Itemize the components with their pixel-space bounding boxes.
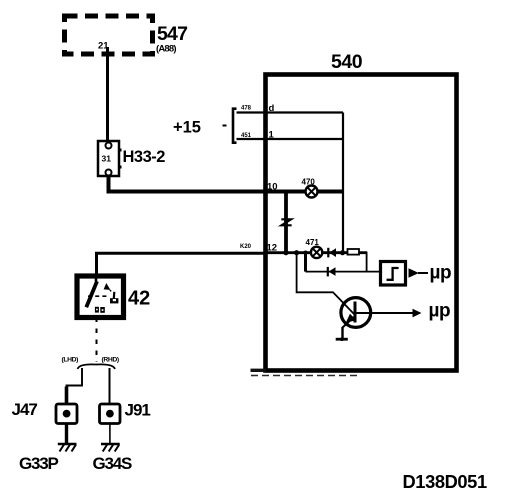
wire H33-2 to pin 10 of 540 xyxy=(109,176,344,192)
wire +15 d xyxy=(237,111,344,113)
diode D1 xyxy=(328,248,336,258)
box 540 xyxy=(266,75,457,371)
resistor R xyxy=(348,249,360,255)
wire zener branch xyxy=(284,192,288,253)
brace split xyxy=(78,364,116,369)
svg-text:12: 12 xyxy=(267,243,278,254)
svg-text:470: 470 xyxy=(302,178,316,187)
trigger box xyxy=(381,262,406,286)
svg-text:540: 540 xyxy=(331,51,363,73)
zener symbol xyxy=(281,219,291,225)
ground G33P xyxy=(58,444,77,452)
svg-text:(RHD): (RHD) xyxy=(102,357,119,364)
wire +15 1 xyxy=(237,138,344,140)
arrow to microprocessor 2 xyxy=(370,309,421,318)
svg-text:42: 42 xyxy=(128,288,150,310)
svg-text:1: 1 xyxy=(269,130,275,141)
ground G34S xyxy=(101,444,120,452)
junction dot xyxy=(283,250,288,255)
svg-text:(LHD): (LHD) xyxy=(62,357,79,364)
junction dot xyxy=(294,250,299,255)
wire vertical feed xyxy=(342,113,344,253)
scan noise under box bottom xyxy=(251,375,358,377)
diode D2 xyxy=(328,267,336,277)
svg-text:G33P: G33P xyxy=(19,454,59,473)
svg-text:10: 10 xyxy=(267,182,278,193)
svg-text:µp: µp xyxy=(429,301,451,322)
scan corner tick xyxy=(251,369,267,372)
lamp 470 xyxy=(306,186,318,198)
transistor Q xyxy=(341,298,371,339)
svg-text:+15: +15 xyxy=(173,119,201,137)
arrow to microprocessor 1 xyxy=(409,268,429,277)
connector J47 xyxy=(56,404,77,424)
connector 547 dashed box xyxy=(65,16,153,54)
dash after +15 xyxy=(223,125,227,127)
wire pin 12 branch xyxy=(265,251,367,254)
wire J47 to ground xyxy=(65,424,68,444)
wire left branch xyxy=(67,368,83,404)
svg-text:D138D051: D138D051 xyxy=(403,471,487,492)
svg-text:471: 471 xyxy=(306,238,320,247)
wire right branch xyxy=(109,368,111,405)
wire resistor to corner xyxy=(359,253,367,272)
wire switch 42 to pin 12 xyxy=(97,253,266,276)
svg-text:478: 478 xyxy=(241,106,252,112)
connector J91 xyxy=(100,404,121,424)
svg-text:J91: J91 xyxy=(125,401,151,420)
wire 547 to H33-2 xyxy=(106,47,109,142)
switch 42 box xyxy=(77,276,124,318)
dashed wire below 42 xyxy=(96,318,98,363)
wire J91 to ground xyxy=(109,424,111,444)
junction dot xyxy=(340,250,345,255)
svg-text:(A88): (A88) xyxy=(156,44,176,55)
connector H33-2 xyxy=(98,141,122,176)
svg-text:H33-2: H33-2 xyxy=(123,148,166,166)
bracket for +15 wires xyxy=(233,109,237,143)
lamp 471 xyxy=(311,247,322,258)
wire lower branch xyxy=(306,271,381,273)
wire left branch thick xyxy=(65,387,69,405)
svg-text:d: d xyxy=(269,103,275,114)
junction dot xyxy=(303,251,307,255)
wire lower branch drop xyxy=(304,253,307,272)
svg-text:31: 31 xyxy=(102,154,112,164)
svg-text:G34S: G34S xyxy=(93,454,133,473)
svg-text:K20: K20 xyxy=(240,244,252,250)
wire to transistor base xyxy=(297,253,355,315)
svg-text:µp: µp xyxy=(430,263,452,284)
ground of transistor xyxy=(336,337,348,341)
svg-text:547: 547 xyxy=(157,23,187,45)
svg-text:J47: J47 xyxy=(12,400,38,419)
